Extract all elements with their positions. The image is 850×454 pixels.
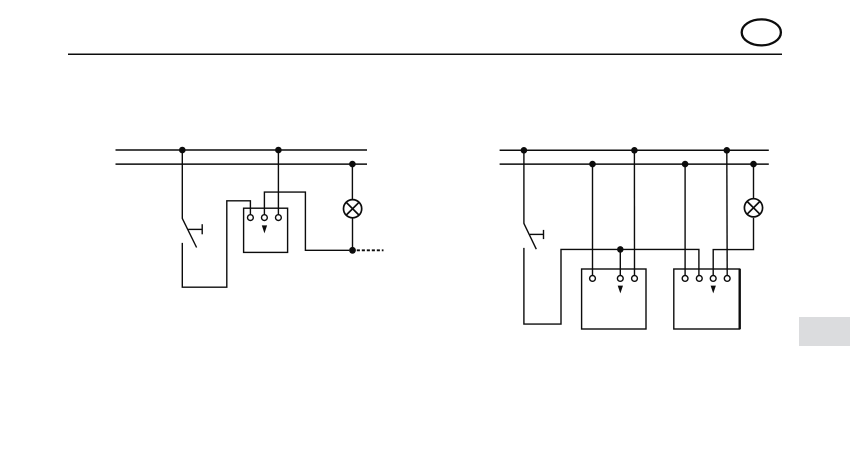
wire bus L2 (left circuit lower supply line) — [116, 163, 368, 165]
logo ellipse — [742, 19, 781, 45]
wire (K2 terminal 2 to node J) — [619, 249, 621, 275]
node B (L1 to dimmer K1 terminal 3) — [275, 147, 282, 154]
node D (lamp return junction) — [349, 247, 356, 254]
page tab marker — [799, 317, 850, 346]
wire (K1 terminal 3 to node B) — [277, 150, 279, 215]
arrow marker of K2 — [618, 286, 623, 294]
switch S2 (push switch) — [524, 223, 544, 249]
lamp E1 — [344, 200, 362, 218]
extension unit K3 (box) — [674, 269, 740, 329]
terminal 2 of K1 — [262, 215, 268, 221]
terminal 2 of K2 — [617, 276, 623, 282]
wire (K1 terminal 2 to lamp junction) — [264, 192, 349, 250]
terminal 2 of K3 — [696, 276, 702, 282]
terminal 4 of K3 — [724, 276, 730, 282]
node I (R2 to extension K3 terminal 1) — [682, 161, 689, 168]
wire (node C to lamp E1) — [351, 164, 353, 200]
header rule — [68, 53, 782, 55]
switch S1 (push switch) — [182, 218, 202, 247]
terminal 3 of K1 — [276, 215, 282, 221]
wire (switch S1 to dimmer K1 terminal 1) — [182, 201, 250, 287]
dimmer K2 (box) — [582, 269, 646, 329]
wire (K3 terminal 1 to node I) — [684, 164, 686, 275]
wire (switch S2 feed from node E) — [523, 150, 525, 223]
terminal 3 of K3 — [710, 276, 716, 282]
terminal 1 of K1 — [248, 215, 254, 221]
node H (R2 to dimmer K2 terminal 1) — [589, 161, 596, 168]
terminal 3 of K2 — [632, 276, 638, 282]
node K (R2 to lamp E2) — [750, 161, 757, 168]
wire bus R2 (right circuit lower supply line) — [500, 163, 769, 165]
arrow marker of K1 — [262, 225, 267, 233]
node C (L2 to lamp E1) — [349, 161, 356, 168]
wire bus L1 (left circuit upper supply line) — [116, 149, 368, 151]
terminal 1 of K2 — [590, 276, 596, 282]
wire (lamp E1 to node D) — [352, 218, 354, 251]
right edge emphasis of K3 — [739, 269, 741, 329]
wire (switch S1 feed from node A) — [181, 150, 183, 219]
wire (dotted continuation) — [357, 249, 384, 251]
wire (K2 terminal 1 to node H) — [592, 164, 594, 275]
dimmer K1 (box) — [244, 208, 288, 252]
wire (K2 terminal 3 to node F) — [633, 150, 635, 275]
wire (switch S2 to node J and K3 terminal 2) — [524, 248, 699, 324]
lamp E2 — [744, 199, 762, 217]
node A (L1 to switch S1) — [179, 147, 186, 154]
node E (R1 to switch S2) — [521, 147, 528, 154]
node J (junction to K2 terminal 2) — [617, 246, 624, 253]
arrow marker of K3 — [711, 286, 716, 294]
wire bus R1 (right circuit upper supply line) — [500, 149, 769, 151]
node F (R1 to dimmer K2 terminal 3) — [631, 147, 638, 154]
node G (R1 to extension K3 terminal 4) — [724, 147, 731, 154]
terminal 1 of K3 — [682, 276, 688, 282]
wire (node K to lamp E2) — [753, 164, 755, 199]
wire (K3 terminal 4 to node G) — [726, 150, 728, 275]
wire (K3 terminal 3 to lamp E2) — [713, 218, 753, 276]
